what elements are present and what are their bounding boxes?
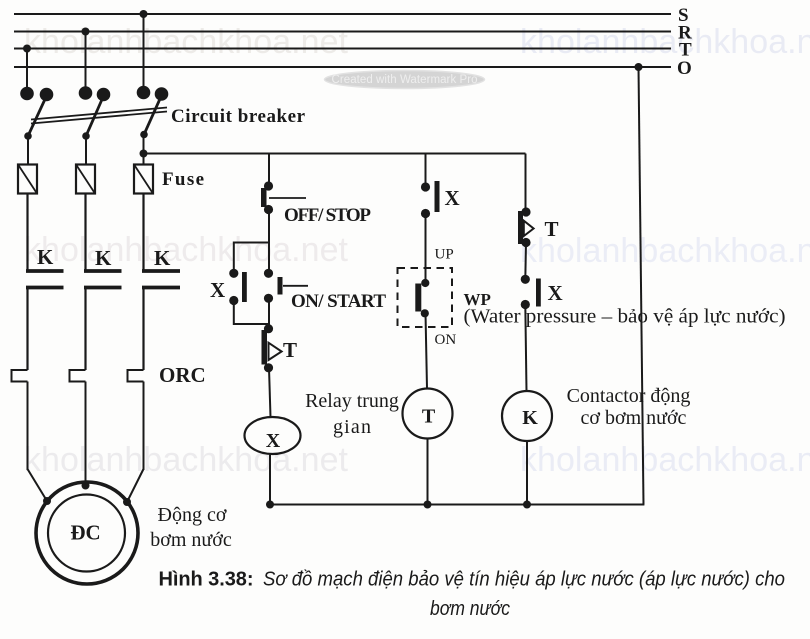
- wire WP to coil T: [426, 313, 428, 388]
- svg-text:T: T: [422, 406, 436, 428]
- figure caption: [159, 569, 786, 621]
- timed contact T NC: [262, 324, 298, 372]
- wire parallel branch rails: [234, 243, 269, 325]
- svg-text:kholanhbachkhoa.net: kholanhbachkhoa.net: [520, 23, 810, 61]
- wire control bus: [144, 153, 526, 155]
- svg-text:Động cơ: Động cơ: [158, 504, 227, 526]
- wire motor lead 2: [82, 482, 90, 490]
- node bus junction X: [266, 501, 274, 509]
- svg-text:bơm nước: bơm nước: [150, 529, 232, 551]
- overload relay ORC phase 3: [128, 370, 144, 470]
- svg-text:X: X: [548, 281, 563, 305]
- svg-text:kholanhbachkhoa.net: kholanhbachkhoa.net: [24, 23, 349, 61]
- watermark row2 right: [520, 232, 810, 270]
- svg-text:kholanhbachkhoa.net: kholanhbachkhoa.net: [520, 232, 810, 270]
- timed contact T NO: [518, 207, 559, 247]
- fuse F3: [134, 165, 153, 194]
- svg-text:ĐC: ĐC: [70, 521, 100, 545]
- wire parallel to T contact: [268, 324, 270, 329]
- power line T: [14, 40, 692, 61]
- svg-text:T: T: [545, 217, 559, 241]
- contact X branch3: [521, 275, 563, 309]
- svg-text:K: K: [95, 246, 112, 270]
- svg-text:cơ bơm nước: cơ bơm nước: [581, 407, 687, 429]
- motor caption: [150, 504, 232, 551]
- label contactor: [567, 385, 691, 429]
- wire OFF to parallel block: [268, 210, 270, 243]
- svg-text:Circuit breaker: Circuit breaker: [171, 106, 306, 127]
- pushbutton ON/START: [264, 269, 386, 312]
- relay coil X: [245, 417, 301, 454]
- wire bottom bus: [270, 504, 644, 506]
- circuit breaker pole 1: [20, 87, 53, 165]
- power line O: [14, 58, 692, 79]
- svg-text:Hình 3.38:: Hình 3.38:: [159, 569, 254, 591]
- watermark row1 right: [520, 23, 810, 61]
- watermark row1 left: [24, 23, 349, 61]
- svg-text:Fuse: Fuse: [162, 169, 204, 190]
- contact X branch2: [421, 181, 460, 218]
- label ON: [435, 332, 457, 348]
- contactor contact K1: [26, 245, 64, 370]
- wire branch1 drop: [268, 154, 270, 187]
- wire X to WP: [425, 214, 427, 284]
- wire coil T to bus: [427, 439, 429, 505]
- svg-text:Created with Watermark Pro: Created with Watermark Pro: [332, 74, 478, 86]
- relay coil T: [403, 389, 453, 439]
- svg-text:Relay trung: Relay trung: [305, 390, 399, 412]
- wire neutral return: [635, 63, 644, 505]
- wire branch2 drop: [425, 154, 427, 188]
- svg-text:kholanhbachkhoa.net: kholanhbachkhoa.net: [520, 441, 810, 479]
- svg-text:T: T: [283, 338, 297, 362]
- svg-text:gian: gian: [333, 416, 371, 438]
- contactor contact K2: [84, 246, 122, 370]
- svg-text:kholanhbachkhoa.net: kholanhbachkhoa.net: [24, 441, 349, 479]
- svg-text:(Water pressure – bảo vệ áp lự: (Water pressure – bảo vệ áp lực nước): [464, 306, 786, 328]
- svg-text:O: O: [677, 58, 692, 79]
- svg-text:K: K: [522, 407, 538, 429]
- svg-text:bơm nước: bơm nước: [430, 598, 510, 620]
- node control branch point: [140, 150, 148, 158]
- ORC label: [159, 363, 206, 387]
- label WP: [464, 290, 491, 309]
- fuse label: [162, 169, 204, 190]
- node tap T: [23, 45, 31, 93]
- wire coil K to bus: [526, 441, 528, 505]
- svg-text:K: K: [154, 246, 171, 270]
- svg-text:ON/ START: ON/ START: [291, 291, 386, 312]
- svg-text:X: X: [445, 186, 460, 210]
- svg-text:OFF/ STOP: OFF/ STOP: [284, 205, 371, 226]
- circuit breaker label: [171, 106, 306, 127]
- wire motor lead 3: [123, 469, 144, 506]
- wire T to X branch3: [524, 243, 527, 280]
- overload relay ORC phase 2: [70, 370, 86, 485]
- fuse F2: [76, 165, 95, 194]
- wire coil X to bus: [269, 454, 271, 505]
- wire fuse1 to K1: [26, 194, 28, 271]
- wire X to coil K: [525, 305, 526, 392]
- contactor contact K3: [142, 246, 180, 370]
- node tap S: [140, 10, 148, 92]
- svg-text:UP: UP: [435, 247, 454, 263]
- watermark row3 right: [520, 441, 810, 479]
- svg-text:Contactor động: Contactor động: [567, 385, 691, 407]
- fuse F1: [18, 165, 37, 194]
- power line S: [14, 5, 689, 26]
- overload relay ORC phase 1: [12, 370, 28, 470]
- circuit breaker pole 3: [137, 86, 169, 165]
- svg-text:ORC: ORC: [159, 363, 206, 387]
- svg-text:X: X: [266, 430, 281, 452]
- node bus junction K: [523, 501, 531, 509]
- motor DC: [36, 482, 138, 584]
- label relay trung gian: [305, 390, 399, 438]
- svg-text:K: K: [37, 245, 54, 269]
- wire motor lead 1: [28, 469, 52, 505]
- circuit breaker linkage: [31, 108, 167, 124]
- contact X seal-in: [210, 269, 247, 305]
- watermark badge: [325, 71, 485, 89]
- wire fuse3 to K3: [142, 194, 144, 271]
- watermark row2 left: [24, 231, 349, 269]
- wire fuse2 to K2: [84, 194, 86, 271]
- svg-text:Sơ đồ mạch điện bảo vệ tín hiệ: Sơ đồ mạch điện bảo vệ tín hiệu áp lực n…: [263, 569, 785, 591]
- svg-text:kholanhbachkhoa.net: kholanhbachkhoa.net: [24, 231, 349, 269]
- contactor coil K: [502, 391, 552, 441]
- label water pressure note: [464, 306, 786, 328]
- pressure switch WP contact: [415, 279, 429, 318]
- pushbutton OFF/STOP: [261, 181, 371, 226]
- circuit breaker pole 2: [79, 86, 111, 165]
- node bus junction T: [424, 501, 432, 509]
- svg-text:X: X: [210, 278, 225, 302]
- pressure switch WP box: [398, 268, 453, 327]
- wire branch3 drop: [525, 154, 527, 213]
- label UP: [435, 247, 454, 263]
- watermark row3 left: [24, 441, 349, 479]
- node tap R: [82, 28, 90, 93]
- wire T contact to coil X: [269, 368, 271, 417]
- power line R: [14, 23, 692, 44]
- svg-text:ON: ON: [435, 332, 457, 348]
